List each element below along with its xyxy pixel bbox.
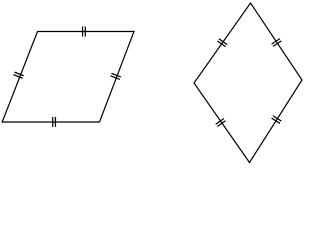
double tick marks, kite upper-left side (217, 39, 227, 47)
double tick marks, kite lower-right side (272, 116, 282, 124)
double tick marks, parallelogram bottom side (53, 117, 56, 127)
double tick marks, parallelogram top side (83, 27, 86, 37)
kite (right quadrilateral) (194, 3, 302, 163)
double tick marks, kite lower-left side (216, 119, 226, 127)
parallelogram (left quadrilateral) (2, 32, 134, 123)
double tick marks, parallelogram left side (13, 72, 23, 78)
double tick marks, kite upper-right side (272, 39, 282, 47)
double tick marks, parallelogram right side (111, 73, 121, 79)
